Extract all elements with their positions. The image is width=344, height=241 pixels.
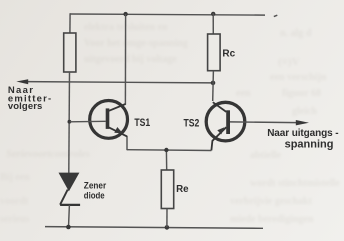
- arrowhead left (naar emittervolgers): [16, 79, 28, 84]
- svg-text:Re: Re: [176, 184, 189, 195]
- wire: output line to emitter followers: [27, 82, 214, 83]
- TS1 base lead: [70, 120, 106, 123]
- transistor TS1 circle: [90, 101, 128, 139]
- zener diode anode triangle: [59, 173, 80, 192]
- TS2 base bar: [226, 110, 230, 134]
- resistor Rc: [208, 34, 221, 71]
- TS1 collector diagonal: [109, 104, 126, 111]
- resistor R1 (left bias resistor): [64, 33, 76, 72]
- svg-text:TS1: TS1: [134, 117, 150, 129]
- node: TS1 collector to rail junction: [123, 12, 127, 16]
- TS2 emitter diagonal and stub: [211, 127, 226, 150]
- node: emitter junction: [164, 148, 168, 152]
- resistor Re: [161, 170, 173, 209]
- TS1 emitter arrowhead: [114, 127, 123, 133]
- wire: common emitter rail: [127, 149, 211, 152]
- svg-text:diode: diode: [84, 190, 105, 201]
- svg-text:Naar uitgangs -: Naar uitgangs -: [267, 128, 338, 139]
- svg-text:Rc: Rc: [222, 49, 235, 60]
- svg-text:Zener: Zener: [84, 180, 107, 190]
- wire: rail to Rc: [212, 13, 214, 35]
- faint bleed-through text from reverse page: [84, 22, 168, 33]
- wire: TS1 emitter stub: [126, 136, 128, 150]
- svg-text:volgers: volgers: [8, 101, 43, 112]
- zener cathode bar: [60, 204, 80, 206]
- TS2 emitter arrowhead: [217, 127, 224, 134]
- wire: zener to bottom rail: [68, 205, 71, 227]
- TS1 base bar: [106, 108, 110, 128]
- node: TS1 base tap: [68, 120, 72, 124]
- node: zener bottom junction: [66, 225, 71, 230]
- wire: Re to bottom rail: [166, 209, 168, 228]
- wire: Rc to junction to TS2 collector: [212, 71, 215, 101]
- wire: R1 down to zener: [68, 72, 71, 173]
- TS1 emitter diagonal: [109, 127, 127, 136]
- transistor TS2 circle: [206, 102, 245, 141]
- top supply rail: [70, 14, 265, 15]
- svg-text:TS2: TS2: [184, 118, 200, 130]
- TS2 collector diagonal: [213, 102, 227, 112]
- TS2 base lead / output line: [230, 121, 297, 124]
- arrowhead right (naar uitgangsspanning): [296, 120, 309, 125]
- rail end mark: [274, 15, 278, 16]
- wire: rail corner down to R1: [69, 13, 71, 33]
- bottom rail: [45, 227, 263, 229]
- node: Rc to rail junction: [211, 12, 215, 16]
- svg-text:spanning: spanning: [285, 139, 334, 151]
- wire: emitter node down to Re: [165, 150, 167, 170]
- wire: TS1 collector to rail: [124, 14, 126, 105]
- node: Rc bottom / TS2 collector junction: [211, 81, 216, 86]
- zener cathode diagonal: [60, 190, 68, 205]
- node: Re bottom junction: [165, 225, 170, 230]
